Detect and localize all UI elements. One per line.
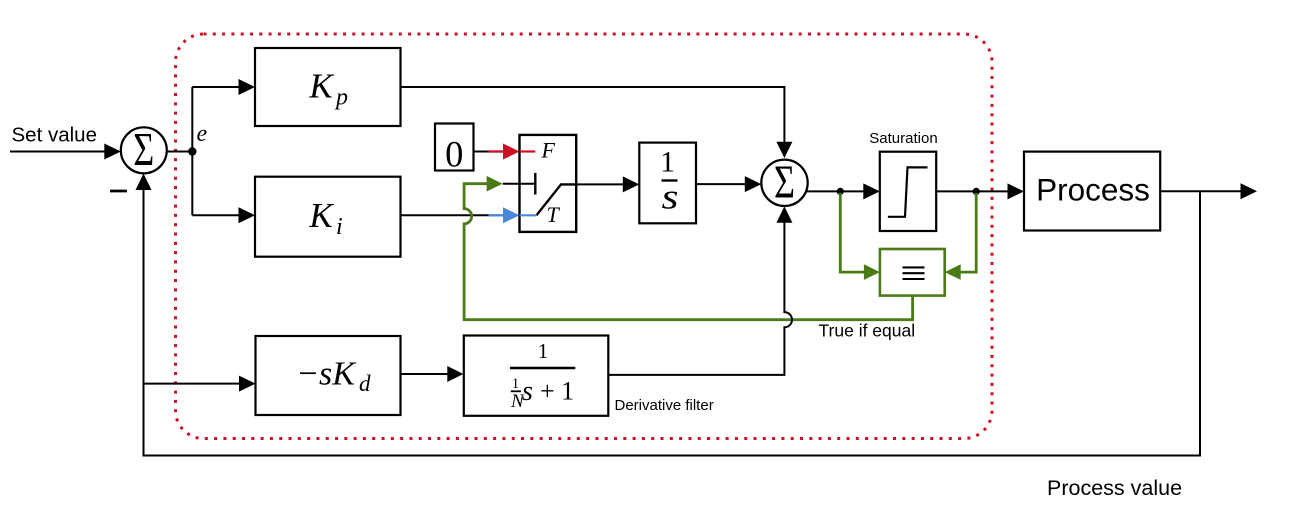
wire: feedback bottom path (process value to S1)	[136, 174, 1201, 456]
svg-text:Σ: Σ	[774, 156, 795, 209]
switch internal: red F stub	[520, 150, 536, 152]
svg-text:K: K	[308, 67, 334, 106]
wire: derivative path up to S2 bottom (with hop over green wire)	[609, 206, 793, 375]
svg-text:1: 1	[512, 376, 519, 392]
svg-text:1: 1	[660, 146, 675, 179]
svg-text:p: p	[334, 85, 348, 111]
green wire: pre-saturation tap to equality block	[840, 193, 880, 280]
wire: switch output to integrator	[576, 176, 639, 192]
switch internal: blue T stub	[520, 214, 537, 216]
svg-text:s: s	[522, 376, 533, 407]
block Kp	[255, 48, 401, 126]
wire: e to Kp	[192, 79, 255, 95]
switch internal: lever diagonal to output	[537, 184, 577, 215]
minus sign at S1	[110, 190, 127, 193]
wire: set value input to summing junction S1	[10, 144, 121, 160]
wire: Kp output to summing junction S2 top	[401, 87, 793, 158]
block switch	[520, 135, 577, 232]
wire: S2 output to saturation	[806, 183, 880, 199]
summing junction S2	[761, 156, 807, 209]
green wire: equality output to switch control (with hop over Ki wire)	[464, 176, 912, 320]
wire: e to Ki	[192, 207, 255, 223]
wire: -sKd output to derivative filter	[401, 366, 464, 382]
svg-text:−sK: −sK	[296, 356, 357, 393]
svg-text:+ 1: + 1	[540, 377, 574, 406]
green wire: post-saturation tap to equality block	[945, 193, 977, 280]
svg-text:T: T	[547, 202, 561, 227]
wire: node e vertical	[191, 87, 193, 215]
block saturation	[880, 152, 936, 231]
wire: 0 output red segment with arrow into switch F	[489, 144, 520, 160]
svg-text:i: i	[336, 214, 343, 240]
block equality (green, three-bar equal symbol)	[880, 249, 945, 296]
svg-text:True if equal: True if equal	[819, 321, 916, 341]
svg-text:Saturation: Saturation	[869, 130, 937, 147]
wire: Ki output (black)	[401, 214, 489, 216]
wire: process output and system output arrow	[1160, 183, 1257, 199]
svg-text:Process: Process	[1036, 172, 1150, 208]
summing junction S1	[121, 123, 167, 176]
node e junction dot	[188, 147, 196, 155]
block integrator 1/s	[639, 143, 696, 224]
svg-text:Set value: Set value	[12, 124, 97, 147]
svg-text:e: e	[197, 121, 208, 147]
switch internal: common input line and tick	[503, 173, 536, 195]
wire: Ki output blue segment with arrow into switch T	[489, 207, 520, 223]
controller boundary (red dotted rounded rect)	[176, 34, 993, 439]
wire: integrator output to S2	[696, 176, 761, 192]
svg-text:1: 1	[538, 339, 549, 363]
block Ki	[255, 177, 401, 257]
block -sKd	[256, 336, 401, 415]
wire: 0 output black stub	[474, 151, 489, 153]
svg-text:Process value: Process value	[1047, 476, 1182, 500]
svg-text:Σ: Σ	[133, 123, 154, 176]
svg-text:s: s	[662, 177, 679, 217]
block Process	[1024, 152, 1160, 231]
block derivative filter 1/((1/N)s+1)	[464, 336, 609, 416]
svg-text:Derivative filter: Derivative filter	[615, 397, 714, 414]
svg-text:0: 0	[445, 134, 463, 175]
svg-text:d: d	[359, 371, 371, 396]
junction dot before saturation	[837, 188, 844, 195]
wire: feedback branch to derivative	[144, 376, 256, 392]
svg-text:K: K	[308, 196, 334, 235]
wire: S1 output to node e	[167, 151, 193, 153]
wire: saturation output to process	[936, 183, 1024, 199]
junction dot after saturation	[973, 188, 980, 195]
svg-text:F: F	[541, 137, 556, 162]
block 0 (constant)	[435, 124, 474, 175]
